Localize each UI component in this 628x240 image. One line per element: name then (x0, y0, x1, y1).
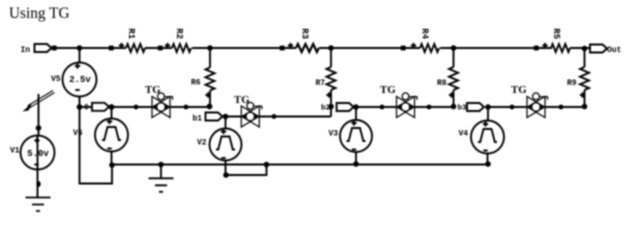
resistor R1 (119, 28, 145, 52)
port b3 (467, 103, 484, 111)
transmission gate TG1 (145, 84, 173, 118)
svg-text:V4: V4 (459, 130, 469, 139)
svg-text:Out: Out (607, 46, 622, 55)
node dot right of TG4 (559, 105, 564, 110)
resistor R9 (567, 49, 589, 107)
annotation arrow (23, 91, 55, 112)
svg-text:Using TG: Using TG (9, 5, 70, 22)
wire V2 bottom jog (226, 165, 267, 176)
wire bottom rail (112, 164, 488, 166)
node b3 junction (R8 bottom) (451, 104, 457, 110)
svg-text:R5: R5 (551, 28, 561, 39)
node V3 bottom junction (353, 161, 359, 167)
svg-text:R9: R9 (567, 79, 577, 88)
node V6 bottom junction (109, 162, 115, 168)
pulse source V6 (73, 107, 128, 165)
wire top rail segment 1 (52, 47, 591, 49)
port b1 (206, 113, 223, 121)
svg-text:b2: b2 (321, 105, 331, 113)
svg-text:V6: V6 (73, 129, 83, 138)
wire V1 bottom stem (37, 170, 39, 198)
svg-text:5.0v: 5.0v (27, 149, 49, 159)
node V4 bottom junction (485, 161, 491, 167)
node dot right of TG3 (427, 105, 432, 110)
svg-text:R1: R1 (126, 28, 136, 39)
svg-text:In: In (21, 46, 31, 55)
node dot right of TG2 (272, 114, 277, 119)
transmission gate TG3 (380, 84, 417, 118)
svg-text:R7: R7 (316, 79, 326, 88)
pulse source V2 (197, 117, 242, 176)
pulse source V4 (459, 107, 505, 164)
wire rail3 (356, 106, 454, 108)
node R8 top junction (451, 45, 457, 51)
svg-text:b1: b1 (193, 115, 203, 124)
port 0 (92, 103, 109, 111)
transmission gate TG4 (511, 84, 548, 118)
node R7 top junction (328, 45, 334, 51)
svg-text:TG: TG (511, 84, 527, 96)
svg-text:V1: V1 (10, 147, 20, 156)
resistor R5 (542, 28, 570, 52)
svg-text:V3: V3 (329, 130, 339, 139)
svg-text:V5: V5 (51, 75, 61, 84)
ground (bottom rail) (149, 165, 174, 192)
node b2 junction (R7 bottom) (328, 104, 334, 110)
ground (below V1) (26, 198, 51, 212)
resistor R2 (165, 28, 191, 52)
node V4 top junction (485, 104, 491, 110)
node dot right of TG1 (184, 105, 189, 110)
node dot after In (52, 46, 57, 51)
resistor R7 (316, 48, 336, 107)
node V2 bottom dot (223, 172, 229, 178)
voltage source V5 2.5v (51, 48, 97, 107)
resistor R3 (288, 28, 319, 52)
node V2 jog junction (264, 162, 270, 168)
node R9 top junction (582, 46, 588, 52)
wire rail2 (226, 107, 332, 117)
node V6 top junction (109, 104, 115, 110)
resistor R8 (437, 48, 458, 107)
node ground junction (158, 162, 164, 168)
node dot left of TG1 (134, 105, 139, 110)
wire V5 to bottom rail loop (80, 107, 113, 184)
svg-text:TG: TG (145, 84, 161, 96)
node V3 top junction (353, 104, 359, 110)
svg-text:R4: R4 (420, 28, 430, 39)
svg-text:TG: TG (380, 84, 396, 96)
node dot before R5 (534, 46, 539, 51)
resistor R6 (191, 48, 215, 107)
node V1 top dot (36, 125, 42, 131)
pulse source V3 (329, 107, 373, 164)
svg-text:2.5v: 2.5v (69, 75, 91, 85)
svg-text:R6: R6 (191, 79, 201, 88)
svg-text:R8: R8 (437, 79, 447, 88)
transmission gate TG2 (234, 94, 262, 127)
wire rail4 (488, 106, 585, 109)
svg-text:b3: b3 (458, 105, 468, 113)
port b2 (337, 103, 354, 111)
node dot before R2 (158, 46, 163, 51)
port In (35, 44, 52, 52)
node dot left of TG4 (510, 105, 515, 110)
node R9 bottom junction (582, 104, 588, 110)
wire rail1 (112, 106, 210, 108)
node V1 bottom dot (36, 181, 40, 187)
wire rail1 to port 0 (80, 106, 93, 108)
svg-text:R2: R2 (174, 28, 184, 39)
node R6 bottom junction (207, 104, 213, 110)
node dot before R3 (280, 46, 285, 51)
svg-text:0: 0 (84, 104, 89, 113)
wire V1 top stem (38, 94, 40, 136)
node 0 (V5 bottom junction) (77, 104, 83, 110)
port Out (590, 45, 607, 53)
svg-text:R3: R3 (300, 28, 310, 39)
node b1 junction (223, 114, 229, 120)
node dot left of TG3 (380, 105, 385, 110)
svg-text:V2: V2 (197, 139, 207, 148)
node V5 top junction (77, 45, 83, 51)
node dot before R1 (109, 46, 114, 51)
resistor R4 (411, 28, 439, 52)
svg-text:TG: TG (234, 94, 250, 106)
node dot before R4 (401, 46, 406, 51)
voltage source V1 5.0v (10, 136, 55, 170)
node R6 top junction (207, 45, 213, 51)
